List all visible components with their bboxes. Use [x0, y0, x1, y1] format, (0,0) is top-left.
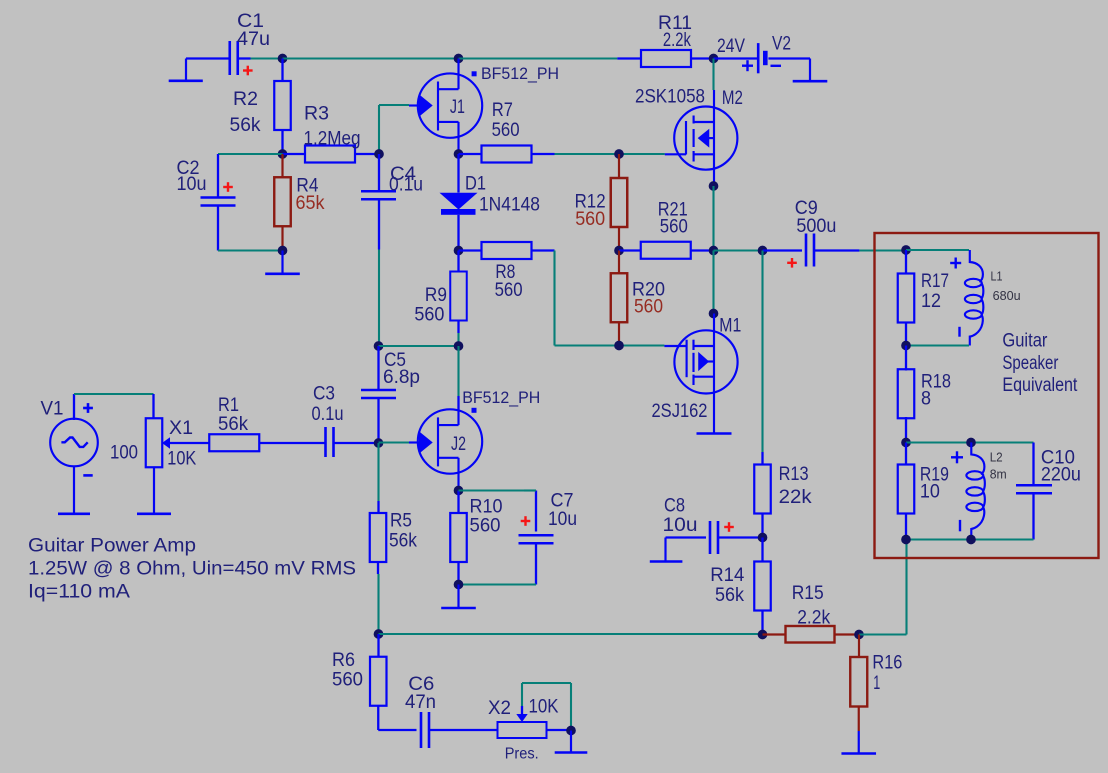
- resistor R20: [618, 251, 620, 275]
- svg-text:22k: 22k: [779, 487, 813, 508]
- resistor R3: [283, 153, 306, 155]
- resistor R4: [281, 154, 283, 178]
- diode D1: [457, 154, 459, 193]
- svg-text:L1: L1: [991, 270, 1003, 284]
- capacitor C7: [519, 534, 554, 537]
- svg-text:R10: R10: [470, 496, 503, 517]
- svg-text:Guitar: Guitar: [1002, 331, 1048, 352]
- svg-text:BF512_PH: BF512_PH: [462, 389, 540, 407]
- svg-text:10u: 10u: [548, 509, 577, 530]
- polarity + C9: [787, 262, 797, 264]
- capacitor C2: [201, 196, 236, 199]
- node U (M1 gate): [614, 341, 624, 351]
- svg-text:R14: R14: [710, 565, 744, 586]
- node F (J1 source): [454, 149, 464, 159]
- wire output down leg: [905, 540, 907, 635]
- svg-text:65k: 65k: [296, 193, 325, 214]
- polarity - V2: [771, 65, 782, 67]
- svg-text:Pres.: Pres.: [505, 746, 539, 763]
- potentiometer X1: [146, 418, 163, 467]
- node A (top rail left): [278, 54, 288, 64]
- resistor R17: [905, 250, 907, 273]
- svg-text:R17: R17: [921, 271, 949, 292]
- svg-text:X1: X1: [169, 418, 193, 439]
- resistor R21: [619, 249, 641, 251]
- svg-text:1N4148: 1N4148: [479, 194, 540, 215]
- svg-text:R15: R15: [792, 583, 824, 604]
- ground (C1 left): [186, 57, 230, 59]
- svg-text:R7: R7: [492, 100, 513, 121]
- svg-text:1.25W @ 8 Ohm, Uin=450 mV RMS: 1.25W @ 8 Ohm, Uin=450 mV RMS: [28, 558, 356, 579]
- capacitor C4: [378, 154, 380, 192]
- node M (R5/feedback rail): [374, 629, 384, 639]
- svg-text:D1: D1: [465, 174, 486, 195]
- resistor R10: [457, 491, 459, 513]
- svg-text:10u: 10u: [177, 174, 207, 195]
- svg-text:M1: M1: [719, 315, 741, 336]
- wire R13 top: [761, 251, 763, 453]
- wire C7 top: [459, 489, 525, 491]
- wire C5 row: [379, 345, 459, 347]
- model BF512_PH (J2): [472, 408, 477, 413]
- svg-text:56k: 56k: [715, 585, 744, 606]
- wire M2 source to R21: [712, 186, 714, 251]
- resistor R9: [457, 251, 459, 273]
- svg-text:8: 8: [921, 388, 931, 409]
- node Y (R15/R16): [854, 630, 864, 640]
- svg-text:Guitar Power Amp: Guitar Power Amp: [28, 536, 196, 557]
- svg-text:R9: R9: [425, 285, 447, 306]
- node H (C5 top): [374, 341, 384, 351]
- wire output row: [714, 249, 763, 251]
- node K (J2 source): [454, 486, 464, 496]
- inductor L2: [966, 442, 984, 538]
- wire R6 bottom: [377, 706, 379, 731]
- svg-text:10u: 10u: [663, 515, 698, 536]
- wire R9 bottom: [457, 333, 459, 346]
- resistor R13: [754, 465, 771, 514]
- polarity + C8: [724, 526, 734, 528]
- svg-text:220u: 220u: [1041, 464, 1081, 485]
- ground (M1 source): [697, 432, 732, 435]
- battery V2: [714, 57, 758, 59]
- svg-text:56k: 56k: [218, 414, 248, 435]
- node O (24V rail): [709, 54, 719, 64]
- polarity + C1: [243, 69, 253, 71]
- svg-text:V2: V2: [772, 34, 791, 55]
- resistor R19: [905, 443, 907, 466]
- wire L2 bottom row: [906, 538, 1034, 540]
- source V1: [50, 419, 98, 467]
- svg-text:6.8p: 6.8p: [383, 367, 420, 388]
- wire R5 top: [377, 443, 379, 501]
- svg-text:500u: 500u: [796, 216, 836, 237]
- svg-text:R2: R2: [233, 89, 258, 110]
- polarity + C2: [223, 186, 233, 188]
- ground (V1): [73, 466, 75, 514]
- svg-text:560: 560: [660, 216, 688, 237]
- svg-text:2SJ162: 2SJ162: [652, 401, 708, 422]
- svg-text:R16: R16: [872, 652, 902, 673]
- wire C8 ground leg: [664, 538, 666, 562]
- svg-text:24V: 24V: [717, 36, 745, 57]
- svg-text:2.2k: 2.2k: [797, 608, 830, 629]
- svg-text:56k: 56k: [389, 530, 417, 551]
- svg-text:R3: R3: [304, 104, 329, 125]
- node N (X2 wiper): [566, 726, 576, 736]
- svg-text:560: 560: [332, 669, 363, 690]
- svg-text:560: 560: [470, 516, 501, 537]
- svg-text:560: 560: [414, 305, 444, 326]
- svg-text:47n: 47n: [405, 692, 436, 713]
- node G (D1/R8/R9): [454, 246, 464, 256]
- svg-text:560: 560: [634, 296, 663, 317]
- resistor R5: [370, 513, 387, 562]
- jfet J2: [409, 409, 482, 490]
- resistor R15: [763, 633, 786, 635]
- polarity - V1: [83, 474, 92, 477]
- resistor R6: [377, 634, 379, 657]
- node X (feedback/R15): [758, 630, 768, 640]
- wire C2 top: [218, 153, 283, 155]
- svg-text:560: 560: [495, 280, 523, 301]
- svg-text:BF512_PH: BF512_PH: [481, 65, 559, 83]
- wire to L1: [906, 249, 969, 251]
- wire feedback rail: [379, 633, 763, 635]
- node B (J1 drain): [454, 54, 464, 64]
- svg-text:V1: V1: [41, 398, 64, 419]
- resistor R14: [761, 538, 763, 562]
- svg-text:10K: 10K: [529, 696, 559, 717]
- resistor R2: [274, 81, 291, 130]
- svg-text:X2: X2: [488, 698, 511, 719]
- capacitor C8: [666, 536, 707, 538]
- capacitor C3: [324, 427, 327, 457]
- svg-text:1.2Meg: 1.2Meg: [304, 128, 361, 149]
- node I (R9/J2 drain): [454, 341, 464, 351]
- ground (R10/C7): [457, 585, 459, 609]
- svg-text:Equivalent: Equivalent: [1002, 375, 1078, 396]
- wire J1 gate: [379, 104, 409, 106]
- node L (R10 bottom): [454, 580, 464, 590]
- wire R8 to M1 gate row: [553, 251, 555, 346]
- capacitor C5: [377, 346, 379, 390]
- wire J2 gate: [379, 441, 410, 443]
- wire R13 bottom: [761, 514, 763, 538]
- svg-text:R13: R13: [779, 464, 809, 485]
- ground (V2): [809, 59, 811, 82]
- svg-text:560: 560: [575, 209, 605, 230]
- node W (C8/R13/R14): [758, 533, 768, 543]
- svg-text:R6: R6: [332, 650, 355, 671]
- mosfet M1: [664, 314, 737, 434]
- polarity - L2: [959, 520, 961, 531]
- speaker equivalent box: [875, 233, 1099, 558]
- wire C2 bottom: [217, 206, 219, 251]
- capacitor C9: [763, 249, 803, 251]
- node T (C9/R13): [758, 246, 768, 256]
- polarity + C7: [521, 520, 531, 522]
- polarity - L1: [958, 327, 960, 337]
- resistor R1: [209, 434, 259, 451]
- node Z3 (R18/R19/L2): [901, 438, 911, 448]
- resistor R18: [905, 346, 907, 371]
- node V (M1 drain pin): [709, 309, 719, 319]
- svg-text:Speaker: Speaker: [1002, 353, 1059, 374]
- wire R5 bottom: [377, 563, 379, 575]
- resistor R7: [459, 153, 482, 155]
- svg-text:100: 100: [110, 442, 138, 463]
- svg-text:680u: 680u: [993, 289, 1021, 303]
- svg-text:10: 10: [920, 482, 940, 503]
- ground (R16): [858, 731, 860, 754]
- wire C7 bottom: [535, 543, 537, 584]
- svg-text:1: 1: [873, 673, 880, 694]
- jfet J1: [409, 59, 482, 155]
- wire C1 to node A: [238, 57, 251, 59]
- svg-text:0.1u: 0.1u: [312, 404, 344, 425]
- node E (R3/C4/gate wire): [374, 149, 384, 159]
- node Z2 (R17/R18): [901, 341, 911, 351]
- resistor R12: [618, 154, 620, 179]
- node Z4 (L2 top): [966, 438, 976, 448]
- node Q (M2 source): [709, 181, 719, 191]
- wire R2 top: [281, 59, 283, 82]
- potentiometer X2: [498, 722, 547, 738]
- svg-text:10K: 10K: [167, 448, 196, 469]
- svg-text:L2: L2: [990, 450, 1003, 464]
- node C (R2/R3/R4/C2): [278, 149, 288, 159]
- svg-text:2.2k: 2.2k: [663, 30, 691, 51]
- mosfet M2: [665, 90, 738, 186]
- wiper wire X2: [521, 683, 523, 706]
- svg-text:12: 12: [921, 291, 941, 312]
- svg-text:0.1u: 0.1u: [389, 175, 423, 196]
- svg-text:C3: C3: [313, 383, 335, 404]
- resistor R8: [459, 249, 482, 251]
- polarity + L2: [951, 456, 963, 458]
- wire top rail B-R11: [459, 57, 618, 59]
- node Z6 (R19 bottom): [901, 535, 911, 545]
- ground (X1): [153, 468, 155, 514]
- capacitor C1: [228, 41, 231, 75]
- node P (M2 gate): [614, 149, 624, 159]
- wire top rail A-B: [283, 57, 459, 59]
- node J (J2 gate): [374, 438, 384, 448]
- model BF512_PH (J1): [472, 71, 477, 76]
- svg-text:R1: R1: [218, 395, 239, 416]
- ground (X2): [570, 731, 572, 753]
- svg-text:J1: J1: [450, 97, 465, 118]
- node Z5 (L2 bottom): [966, 535, 976, 545]
- wire R7 to M2 gate: [555, 153, 665, 155]
- resistor R16: [858, 635, 860, 658]
- ground (R4/C2): [281, 251, 283, 274]
- wire C9 to speaker: [859, 249, 906, 251]
- svg-text:J2: J2: [451, 434, 466, 455]
- wire M2 drain: [712, 59, 714, 91]
- node S (output junction): [709, 246, 719, 256]
- wire C4 to C5 node: [378, 250, 380, 347]
- svg-text:560: 560: [492, 120, 520, 141]
- capacitor C6: [420, 712, 423, 748]
- inductor L1: [965, 250, 983, 346]
- wire R2 bottom: [281, 130, 283, 154]
- wire X2 right: [547, 729, 572, 731]
- svg-text:8m: 8m: [990, 467, 1007, 481]
- wire L2 top row: [906, 441, 1034, 443]
- svg-text:C8: C8: [664, 495, 685, 516]
- resistor R11: [641, 50, 691, 67]
- svg-text:Iq=110 mA: Iq=110 mA: [28, 581, 130, 602]
- svg-text:R5: R5: [390, 510, 412, 531]
- polarity + V2: [742, 64, 753, 66]
- node Z1 (R17/L1 top): [901, 245, 911, 255]
- node D (R4 bottom): [278, 246, 288, 256]
- wire M1 drain: [712, 251, 714, 314]
- wire L1 bottom: [906, 344, 969, 346]
- wire V1 top: [73, 394, 75, 420]
- polarity + V1: [83, 407, 93, 410]
- node R (R12/R21/R20): [614, 246, 624, 256]
- wire J2 drain: [457, 346, 459, 396]
- svg-text:M2: M2: [722, 88, 743, 109]
- svg-text:56k: 56k: [230, 115, 261, 136]
- svg-text:47u: 47u: [237, 29, 270, 50]
- polarity + L1: [950, 262, 961, 264]
- svg-text:2SK1058: 2SK1058: [635, 87, 705, 108]
- capacitor C10: [1032, 443, 1034, 486]
